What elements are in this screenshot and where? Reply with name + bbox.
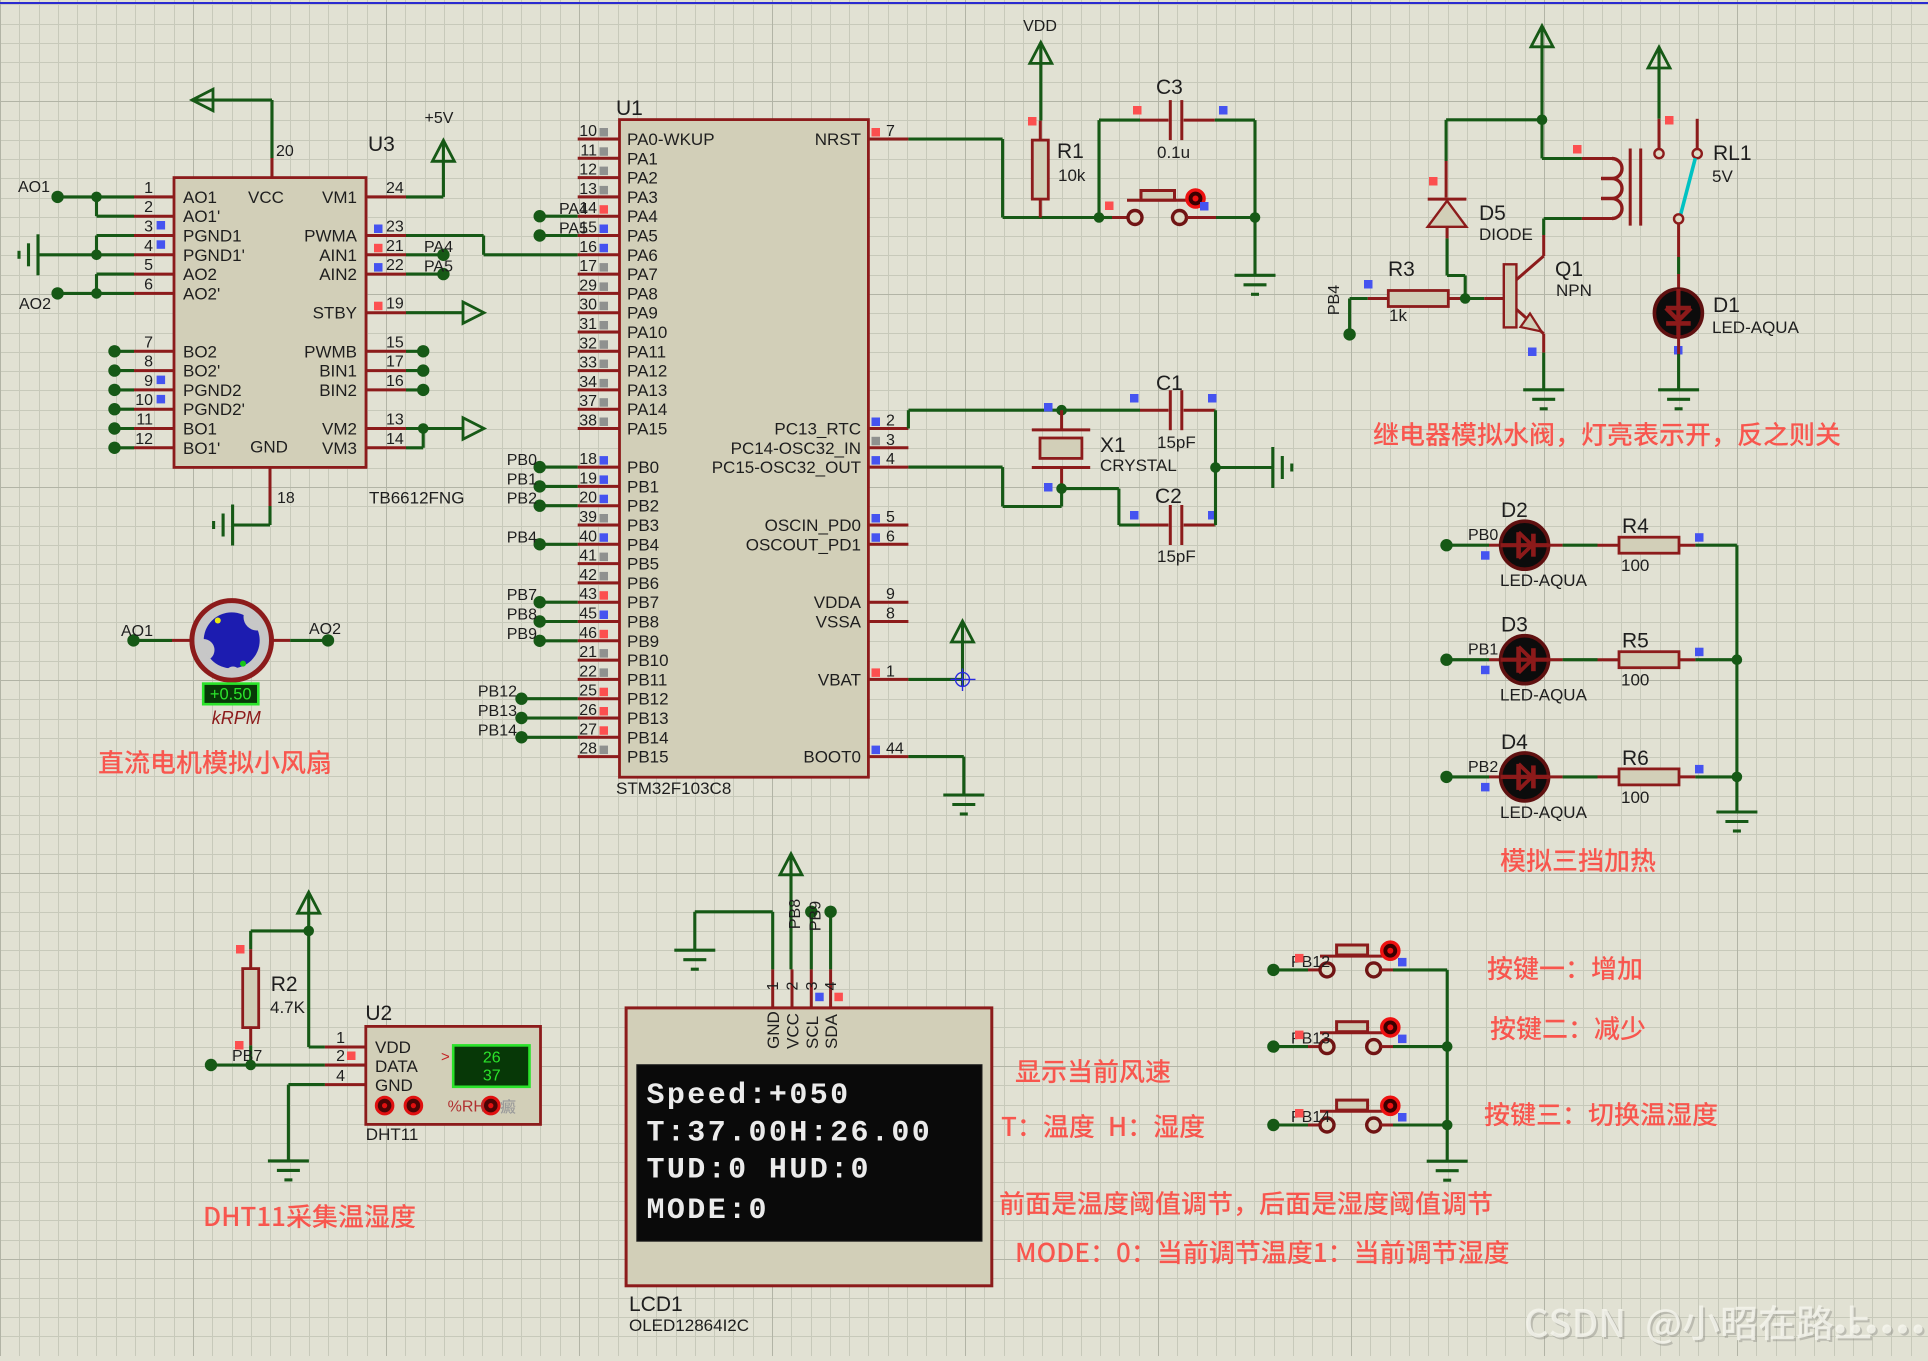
- R2 top state square: [236, 945, 245, 954]
- svg-text:DATA: DATA: [375, 1057, 418, 1076]
- svg-text:18: 18: [277, 490, 295, 507]
- svg-text:%RH: %RH: [448, 1099, 485, 1116]
- capacitor C3: [1140, 76, 1215, 162]
- U3 motor driver body: [174, 133, 464, 508]
- annotation three level heating: [1501, 848, 1656, 872]
- LCD pin4 state square: [834, 993, 843, 1002]
- svg-text:PA4: PA4: [559, 201, 588, 218]
- svg-text:DIODE: DIODE: [1479, 225, 1533, 244]
- svg-text:VM3: VM3: [322, 439, 357, 458]
- svg-text:PB6: PB6: [627, 574, 659, 593]
- U3 pin 6 AO2': [134, 276, 220, 303]
- ground at U3 PGND1: [19, 234, 38, 275]
- U1 pin 21 PB10: [578, 644, 669, 670]
- svg-text:22: 22: [386, 257, 404, 274]
- wire SCL: [810, 912, 813, 970]
- button blue state square: [1398, 1113, 1407, 1122]
- svg-text:33: 33: [579, 355, 597, 372]
- wire button right to ground junction: [1216, 216, 1255, 219]
- svg-text:38: 38: [579, 413, 597, 430]
- push button PB14: [1320, 1097, 1399, 1132]
- svg-text:R2: R2: [271, 973, 298, 996]
- R2 bottom state square: [235, 1041, 244, 1050]
- U1 pin 46 PB9: [578, 625, 659, 651]
- svg-text:100: 100: [1621, 788, 1649, 807]
- svg-text:4: 4: [336, 1068, 345, 1085]
- push button PB12: [1320, 942, 1399, 977]
- wire stub U3 pin 11: [108, 422, 134, 434]
- wire PB0 to LED D2: [1447, 544, 1502, 547]
- svg-text:D5: D5: [1479, 202, 1506, 225]
- wire PB4 to R3: [1350, 299, 1368, 335]
- svg-text:OLED12864I2C: OLED12864I2C: [629, 1316, 749, 1335]
- svg-text:+5V: +5V: [425, 110, 454, 127]
- svg-text:4: 4: [886, 451, 895, 468]
- resistor R5: [1598, 630, 1696, 690]
- U1 pin 27 PB14: [578, 721, 669, 747]
- svg-text:AIN2: AIN2: [319, 265, 357, 284]
- svg-text:C1: C1: [1156, 372, 1183, 395]
- svg-text:PA9: PA9: [627, 304, 658, 323]
- wire Q1 collector to relay coil: [1544, 219, 1582, 257]
- junction button rail 2: [1442, 1041, 1453, 1052]
- LCD pin3 state square: [815, 993, 824, 1002]
- wire button to ground rail: [1393, 968, 1447, 971]
- svg-text:AO1: AO1: [121, 623, 153, 640]
- svg-text:VDD: VDD: [375, 1038, 411, 1057]
- svg-text:R3: R3: [1388, 258, 1415, 281]
- power arrow at VBAT: [952, 621, 974, 687]
- wire stub BIN1: [406, 364, 429, 376]
- node PB7 at U1: [507, 587, 578, 608]
- svg-text:PA10: PA10: [627, 323, 667, 342]
- svg-text:19: 19: [579, 470, 597, 487]
- svg-text:R6: R6: [1622, 747, 1649, 770]
- wire stub U3 pin 10: [108, 403, 134, 415]
- wire DATA net: [211, 1063, 366, 1066]
- U1 pin 15 PA5: [578, 220, 658, 246]
- U3 pin4 state square: [157, 240, 166, 249]
- svg-text:PC15-OSC32_OUT: PC15-OSC32_OUT: [712, 458, 861, 477]
- svg-text:PB0: PB0: [1468, 527, 1498, 544]
- svg-text:Speed:+050: Speed:+050: [647, 1079, 851, 1113]
- LCD1 body: [626, 1008, 992, 1335]
- R1 top state square: [1028, 117, 1037, 126]
- node PB12 at U1: [478, 684, 578, 705]
- U3 pin 10 PGND2': [134, 392, 245, 419]
- svg-text:AO1': AO1': [183, 207, 220, 226]
- svg-text:D3: D3: [1501, 614, 1528, 637]
- capacitor C1: [1140, 372, 1215, 452]
- wire STBY output terminal: [406, 302, 484, 323]
- U1 pin 8 VSSA: [816, 606, 909, 632]
- node PB0 terminal: [1440, 527, 1498, 551]
- svg-text:PA4: PA4: [424, 239, 453, 256]
- U1 pin 16 PA6: [578, 239, 658, 265]
- svg-text:1: 1: [886, 663, 895, 680]
- svg-text:PC14-OSC32_IN: PC14-OSC32_IN: [731, 439, 861, 458]
- svg-text:5: 5: [144, 257, 153, 274]
- svg-text:29: 29: [579, 277, 597, 294]
- wire LED to resistor R5: [1548, 658, 1598, 661]
- svg-text:4: 4: [823, 981, 840, 990]
- terminal arrow to pin 20: [192, 89, 272, 158]
- annotation show wind speed: [1016, 1059, 1170, 1083]
- wire SDA: [829, 912, 832, 970]
- LED D1: [1654, 289, 1799, 337]
- svg-text:BO1: BO1: [183, 420, 217, 439]
- wire button ground rail: [1446, 970, 1449, 1161]
- svg-text:SDA: SDA: [822, 1013, 841, 1049]
- wire VM1 to +5V: [406, 160, 443, 197]
- junction X1 bottom: [1056, 483, 1067, 494]
- svg-text:14: 14: [386, 431, 404, 448]
- svg-text:PB8: PB8: [787, 899, 804, 929]
- junction crystal ground: [1210, 462, 1221, 473]
- U1 pin 11 PA1: [578, 142, 658, 168]
- svg-text:R1: R1: [1057, 140, 1084, 163]
- U1 pin 43 PB7: [578, 586, 659, 612]
- svg-text:PB8: PB8: [507, 607, 537, 624]
- svg-text:5V: 5V: [1712, 167, 1733, 186]
- U3 pin 24 VM1: [322, 180, 406, 207]
- svg-text:OSCIN_PD0: OSCIN_PD0: [765, 516, 861, 535]
- svg-text:5: 5: [886, 509, 895, 526]
- svg-text:PA7: PA7: [627, 265, 658, 284]
- origin marker at VBAT: [951, 669, 976, 692]
- svg-text:6: 6: [144, 276, 153, 293]
- U3 pin 18 GND bottom stub: [270, 467, 295, 507]
- svg-text:LED-AQUA: LED-AQUA: [1712, 318, 1800, 337]
- U3 pin 7 BO2: [134, 334, 217, 361]
- svg-text:40: 40: [579, 528, 597, 545]
- svg-text:Q1: Q1: [1555, 258, 1583, 281]
- svg-text:44: 44: [886, 741, 904, 758]
- node PB7 terminal at DHT11: [205, 1048, 263, 1071]
- ground at Q1 emitter: [1523, 390, 1564, 409]
- crystal X1: [1032, 410, 1177, 488]
- junction relay VCC: [1537, 115, 1548, 126]
- svg-text:PGND1: PGND1: [183, 227, 242, 246]
- D3 state square: [1481, 666, 1490, 675]
- svg-text:PA11: PA11: [627, 342, 666, 361]
- wire crystal ground rail: [1215, 410, 1272, 525]
- LCD text line 1: [647, 1079, 851, 1113]
- U3 pin 15 PWMB: [304, 334, 406, 361]
- LCD pin stubs: [765, 969, 840, 1008]
- U1 pin 26 PB13: [578, 702, 669, 728]
- svg-text:AO1: AO1: [18, 179, 50, 196]
- svg-text:STBY: STBY: [313, 304, 357, 323]
- wire VBAT: [908, 678, 962, 681]
- wire base junction to Q1: [1465, 297, 1504, 300]
- svg-text:PB1: PB1: [1468, 642, 1498, 659]
- svg-text:VSSA: VSSA: [816, 613, 862, 632]
- junction NRST: [1094, 212, 1105, 223]
- U3 pin21 state square: [374, 244, 383, 253]
- U1 pin 9 VDDA: [814, 586, 909, 612]
- U3 pin 21 AIN1: [319, 238, 406, 265]
- annotation relay water valve: [1374, 422, 1840, 447]
- svg-text:4.7K: 4.7K: [270, 998, 306, 1017]
- U3 pin 5 AO2: [134, 257, 217, 284]
- svg-text:R4: R4: [1622, 515, 1649, 538]
- U1 pin 10 PA0-WKUP: [578, 123, 715, 149]
- U3 pin 12 BO1': [134, 431, 220, 458]
- U3 pin9 state square: [157, 376, 166, 385]
- svg-text:10: 10: [135, 392, 153, 409]
- svg-text:0.1u: 0.1u: [1157, 143, 1190, 162]
- svg-text:VCC: VCC: [248, 188, 284, 207]
- node PB13 at U1: [478, 703, 578, 724]
- svg-text:45: 45: [579, 606, 597, 623]
- motor fan symbol: [192, 601, 272, 681]
- node PA5 label on AIN2: [406, 258, 453, 280]
- wire PGND1 net: [38, 236, 134, 255]
- svg-text:1k: 1k: [1389, 306, 1407, 325]
- U1 pin 31 PA10: [578, 316, 668, 342]
- junction PGND1: [91, 250, 102, 261]
- wire C3 right down to ground rail: [1215, 120, 1255, 217]
- svg-text:PA13: PA13: [627, 381, 667, 400]
- svg-text:MODE:0: MODE:0: [647, 1194, 769, 1228]
- svg-text:VDD: VDD: [1023, 18, 1057, 35]
- svg-text:43: 43: [579, 586, 597, 603]
- U3 pin 2 AO1': [134, 199, 220, 226]
- svg-text:100: 100: [1621, 556, 1649, 575]
- LED D3: [1500, 614, 1588, 705]
- LCD text line 4: [647, 1194, 769, 1228]
- ground at button rail: [1427, 1161, 1468, 1180]
- svg-text:18: 18: [579, 451, 597, 468]
- svg-text:AO2': AO2': [183, 284, 220, 303]
- LED D2: [1500, 499, 1588, 590]
- wire R2 bottom to DATA net: [249, 1045, 252, 1065]
- wire Q1 emitter to ground: [1542, 334, 1545, 390]
- svg-text:8: 8: [886, 606, 895, 623]
- wire button to ground rail: [1393, 1123, 1447, 1126]
- svg-text:T:37.00H:26.00: T:37.00H:26.00: [647, 1117, 933, 1151]
- power arrow at DHT11: [298, 892, 320, 931]
- svg-text:AO1: AO1: [183, 188, 217, 207]
- power VDD symbol: [1023, 18, 1057, 63]
- svg-text:D4: D4: [1501, 731, 1528, 754]
- node AO1 terminal: [18, 179, 64, 203]
- svg-text:AO2: AO2: [19, 296, 51, 313]
- svg-text:PB1: PB1: [507, 471, 537, 488]
- U1 pin 7 NRST: [815, 123, 909, 149]
- annotation MODE meaning: [1018, 1240, 1509, 1264]
- U3 pin19 state square: [374, 302, 383, 311]
- PB14 label: [1291, 1109, 1330, 1126]
- sheet border top line: [0, 2, 1928, 4]
- DHT11 grey glyph: [500, 1099, 515, 1114]
- svg-text:7: 7: [886, 123, 895, 140]
- svg-text:9: 9: [886, 586, 895, 603]
- junction VM2: [418, 423, 429, 434]
- svg-text:X1: X1: [1100, 434, 1126, 457]
- svg-text:PB2: PB2: [627, 497, 659, 516]
- svg-text:LED-AQUA: LED-AQUA: [1500, 571, 1588, 590]
- svg-text:PGND1': PGND1': [183, 246, 245, 265]
- svg-text:PA8: PA8: [627, 284, 658, 303]
- C1 right state square: [1208, 394, 1217, 403]
- svg-text:12: 12: [135, 431, 153, 448]
- svg-text:PGND2: PGND2: [183, 381, 242, 400]
- svg-text:D1: D1: [1713, 294, 1740, 317]
- svg-text:U1: U1: [616, 97, 643, 120]
- svg-text:PB4: PB4: [1326, 285, 1343, 315]
- svg-text:39: 39: [579, 509, 597, 526]
- svg-text:BO1': BO1': [183, 439, 220, 458]
- svg-text:STM32F103C8: STM32F103C8: [616, 779, 731, 798]
- resistor R1: [1032, 121, 1086, 218]
- svg-text:PA15: PA15: [627, 420, 667, 439]
- svg-text:2: 2: [785, 981, 802, 990]
- node PB9 terminal at LCD: [808, 901, 837, 931]
- svg-text:42: 42: [579, 567, 597, 584]
- svg-text:PB8: PB8: [627, 613, 659, 632]
- svg-text:U3: U3: [368, 133, 395, 156]
- svg-text:17: 17: [579, 258, 597, 275]
- wire stub U3 pin 9: [108, 384, 134, 396]
- svg-text:LED-AQUA: LED-AQUA: [1500, 803, 1588, 822]
- wire button to ground rail: [1393, 1045, 1447, 1048]
- wire U3 GND to ground: [233, 506, 270, 525]
- resistor R6: [1598, 747, 1696, 807]
- watermark CSDN: [1526, 1305, 1924, 1346]
- node PB2 at U1: [507, 491, 578, 512]
- wire VDD net to U2: [309, 931, 366, 1047]
- U1 pin 20 PB2: [578, 490, 659, 516]
- D5 state square: [1429, 177, 1438, 186]
- svg-text:PB13: PB13: [627, 709, 669, 728]
- svg-text:BIN1: BIN1: [319, 362, 357, 381]
- ground at BOOT0: [943, 795, 984, 814]
- svg-text:PB10: PB10: [627, 651, 669, 670]
- svg-text:20: 20: [579, 490, 597, 507]
- U3 pin 14 VM3: [322, 431, 406, 458]
- U3 pin 1 AO1: [134, 180, 217, 207]
- svg-text:PC13_RTC: PC13_RTC: [774, 420, 861, 439]
- svg-text:3: 3: [886, 432, 895, 449]
- svg-text:2: 2: [886, 413, 895, 430]
- svg-text:D2: D2: [1501, 499, 1528, 522]
- U1 pin 22 PB11: [578, 663, 668, 689]
- svg-text:>: >: [441, 1049, 450, 1066]
- wire LCD GND to ground: [695, 912, 773, 970]
- junction R2 DATA: [245, 1060, 256, 1071]
- wire PB12 to button: [1273, 968, 1320, 971]
- wire ground rail down: [1253, 218, 1256, 276]
- svg-text:GND: GND: [764, 1011, 783, 1049]
- D2 state square: [1481, 551, 1490, 560]
- wire button to junction: [1099, 216, 1112, 219]
- svg-text:PA2: PA2: [627, 169, 658, 188]
- U1 pin 1 VBAT: [818, 663, 909, 689]
- junction Q1 base: [1460, 293, 1471, 304]
- svg-text:PB5: PB5: [627, 555, 659, 574]
- U3 pin 17 BIN1: [319, 354, 406, 381]
- U1 pin 40 PB4: [578, 528, 659, 554]
- svg-text:PA0-WKUP: PA0-WKUP: [627, 130, 715, 149]
- junction DHT11 VCC: [303, 926, 314, 937]
- svg-text:PB15: PB15: [627, 748, 669, 767]
- LCD text line 3: [647, 1154, 871, 1188]
- U3 pin 3 PGND1: [134, 219, 242, 246]
- junction AO1: [91, 192, 102, 203]
- svg-text:25: 25: [579, 683, 597, 700]
- U1 pin 25 PB12: [578, 683, 669, 709]
- annotation DHT11 sensor: [206, 1204, 416, 1228]
- motor speed readout: [203, 684, 258, 705]
- wire NRST net: [908, 139, 1099, 218]
- button blue state square: [1398, 958, 1407, 967]
- svg-text:13: 13: [386, 412, 404, 429]
- svg-text:23: 23: [386, 219, 404, 236]
- U1 pin 5 OSCIN_PD0: [765, 509, 909, 535]
- svg-text:PB9: PB9: [507, 626, 537, 643]
- motor kRPM label: [212, 708, 261, 728]
- power arrow at LCD VCC: [780, 854, 802, 970]
- wire AO1 to motor: [134, 639, 192, 642]
- U3 pin22 state square: [374, 263, 383, 272]
- X1 top state square: [1044, 403, 1053, 412]
- svg-text:GND: GND: [375, 1076, 413, 1095]
- reset button right state square: [1200, 202, 1209, 211]
- U3 pin 11 BO1: [134, 412, 217, 439]
- wire stub U3 pin 12: [108, 442, 134, 454]
- annotation key2 decrease: [1491, 1016, 1645, 1040]
- svg-text:PB7: PB7: [627, 593, 659, 612]
- node PB14 terminal: [1267, 1119, 1279, 1131]
- svg-text:BOOT0: BOOT0: [803, 748, 861, 767]
- svg-text:DHT11: DHT11: [366, 1125, 419, 1144]
- U1 pin 14 PA4: [578, 200, 658, 226]
- relay contact state square: [1665, 116, 1674, 125]
- wire PC15 to X1 bottom: [908, 467, 1061, 506]
- svg-text:15pF: 15pF: [1157, 547, 1196, 566]
- svg-text:30: 30: [579, 297, 597, 314]
- wire PWMA to U1 PA6: [406, 236, 578, 255]
- svg-text:20: 20: [276, 143, 294, 160]
- svg-text:VM1: VM1: [322, 188, 357, 207]
- annotation T temperature H humidity: [1002, 1114, 1205, 1138]
- wire BOOT0 to ground: [908, 757, 963, 795]
- svg-text:TUD:0 HUD:0: TUD:0 HUD:0: [647, 1154, 871, 1188]
- diode D5: [1428, 161, 1533, 244]
- svg-text:PA1: PA1: [627, 149, 658, 168]
- svg-text:TB6612FNG: TB6612FNG: [369, 489, 464, 508]
- node PB1 terminal: [1440, 642, 1498, 666]
- svg-text:LCD1: LCD1: [629, 1293, 683, 1316]
- U1 pin 12 PA2: [578, 162, 658, 188]
- Q1 emitter state square: [1528, 348, 1537, 357]
- svg-text:RL1: RL1: [1713, 142, 1752, 165]
- node PB8 terminal at LCD: [787, 899, 818, 929]
- node PA4 at U1: [534, 201, 589, 222]
- U3 pin 23 PWMA: [304, 219, 406, 246]
- svg-text:PA5: PA5: [559, 221, 588, 238]
- wire relay pole to D1: [1677, 224, 1680, 290]
- U1 pin 38 PA15: [578, 413, 668, 439]
- reset button: [1112, 190, 1216, 225]
- svg-text:PA12: PA12: [627, 362, 667, 381]
- svg-text:C2: C2: [1155, 485, 1182, 508]
- node PB4 terminal: [1326, 285, 1356, 341]
- svg-text:NPN: NPN: [1556, 281, 1592, 300]
- wire VDD to R1: [1039, 62, 1042, 120]
